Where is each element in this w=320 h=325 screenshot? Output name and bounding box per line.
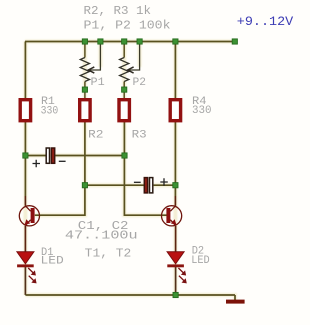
svg-text:LED: LED	[41, 256, 65, 268]
wire top power rail	[25, 41, 235, 43]
wire C1 right plate to R3 column	[55, 155, 124, 157]
wire halo underlay	[25, 42, 235, 301]
wire D1 cathode down to bottom rail	[24, 267, 26, 295]
resistor R2	[80, 100, 90, 121]
svg-text:330: 330	[41, 106, 59, 118]
node P1-R2	[82, 87, 87, 92]
wire P2 bottom lead to R3	[123, 82, 125, 100]
wire ground stub	[234, 295, 236, 300]
svg-text:R3: R3	[132, 130, 147, 142]
wire P1 bottom lead to R2	[84, 82, 86, 100]
LED D1	[17, 252, 37, 284]
wire R1 bottom to C1 node and down toward T1	[24, 122, 26, 197]
node R2-C2	[82, 183, 87, 188]
node rail-R4	[173, 39, 178, 44]
resistor R1	[20, 100, 30, 121]
LED D2	[167, 252, 187, 284]
node P2-R3	[122, 87, 127, 92]
svg-text:47..100u: 47..100u	[65, 228, 138, 242]
potentiometer P1	[80, 58, 94, 82]
wire P2 wiper feed	[128, 42, 140, 71]
node rail-P2-wiper	[137, 39, 142, 44]
capacitor C1	[33, 148, 66, 167]
wire P1 top lead	[84, 42, 86, 58]
svg-text:R2, R3 1k: R2, R3 1k	[84, 4, 152, 18]
node rail-P1-wiper	[98, 39, 103, 44]
transistor T1	[19, 206, 39, 226]
resistor R3	[119, 100, 129, 121]
wire R2 column down and left to T1 base	[35, 122, 85, 216]
node rail-P2	[122, 39, 127, 44]
node C1-R3	[122, 153, 127, 158]
ground	[226, 300, 245, 304]
svg-text:R2: R2	[88, 130, 104, 142]
svg-text:330: 330	[192, 105, 212, 117]
capacitor C2	[134, 178, 168, 193]
wire C2 right plate to R4 column	[154, 184, 176, 186]
wire C2 horizontal from R2 column to plate	[85, 184, 144, 186]
wire P2 top lead	[123, 42, 125, 58]
transistor T2	[162, 206, 182, 226]
resistor R4	[170, 100, 180, 121]
wire T2 collector pin	[174, 196, 176, 206]
node D2-ground-rail	[173, 292, 178, 297]
potentiometer P2	[120, 58, 134, 82]
wire T2 emitter to D2 anode	[175, 226, 177, 252]
svg-text:T1, T2: T1, T2	[85, 246, 132, 260]
wire R4 bottom to C2 node and toward T2	[174, 122, 176, 197]
wire R4 top lead from rail	[174, 42, 176, 100]
wire T1 emitter to D1 anode	[24, 226, 26, 252]
svg-text:P2: P2	[133, 77, 147, 89]
wire left drop from rail to R1	[24, 42, 26, 100]
svg-text:LED: LED	[191, 255, 210, 267]
wire R3 column down and right to T2 base	[124, 122, 166, 216]
node rail-supply	[232, 39, 237, 44]
node rail-P1	[82, 39, 87, 44]
wire T1 collector pin	[24, 196, 26, 206]
svg-text:P1: P1	[91, 77, 106, 89]
wire D2 cathode down to bottom rail	[175, 267, 177, 295]
svg-text:P1, P2 100k: P1, P2 100k	[84, 19, 171, 33]
node C2-R4	[173, 183, 178, 188]
wire bottom ground rail	[25, 294, 235, 296]
wire C1 horizontal from left node to plate	[25, 155, 45, 157]
node R1-C1	[23, 153, 28, 158]
wire P1 wiper feed	[89, 42, 101, 71]
svg-text:+9..12V: +9..12V	[237, 15, 294, 29]
